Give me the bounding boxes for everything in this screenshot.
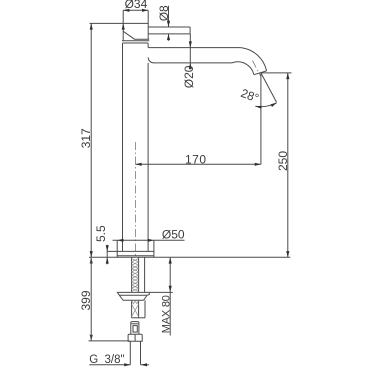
label G 3/8 with dimension xyxy=(89,354,149,367)
28 deg dimension arc xyxy=(255,103,276,109)
svg-text:Ø50: Ø50 xyxy=(162,228,185,242)
28 deg vertical reference xyxy=(260,73,262,164)
threaded shank upper xyxy=(132,257,139,292)
dimension Ø8 lever xyxy=(157,5,171,41)
dimension 170 xyxy=(135,152,261,166)
dimension 399 xyxy=(79,257,130,341)
connector tube xyxy=(130,341,140,365)
dimension line Ø34 on cap top edge xyxy=(123,9,148,12)
hose end sleeve xyxy=(131,322,139,335)
spout xyxy=(148,48,267,77)
MAX80 washer extension xyxy=(149,291,173,293)
dimension MAX 80 xyxy=(160,257,172,335)
washer plate xyxy=(117,292,149,295)
clamping nut xyxy=(119,295,146,300)
dimension Ø50 xyxy=(113,228,185,258)
dimension 317 xyxy=(79,23,93,257)
body centerline xyxy=(134,142,136,257)
supply tube edge lower xyxy=(144,300,146,318)
28 deg slant line xyxy=(261,73,277,102)
base flange xyxy=(107,251,154,255)
supply tube edge upper xyxy=(144,257,146,292)
svg-text:G 3/8": G 3/8" xyxy=(89,354,124,366)
dimension 5.5 xyxy=(94,225,109,264)
svg-text:5.5: 5.5 xyxy=(94,225,108,242)
dimension Ø20 spout xyxy=(182,34,196,88)
hex nut G3/8 xyxy=(128,334,142,341)
counter deck line xyxy=(89,256,290,258)
faucet body xyxy=(123,43,149,251)
dimension 250 xyxy=(261,73,292,257)
arrow at cap edge on seam xyxy=(122,23,125,29)
handle cap outline xyxy=(90,10,150,40)
lever bar xyxy=(148,27,190,34)
threaded shank lower xyxy=(132,300,145,318)
